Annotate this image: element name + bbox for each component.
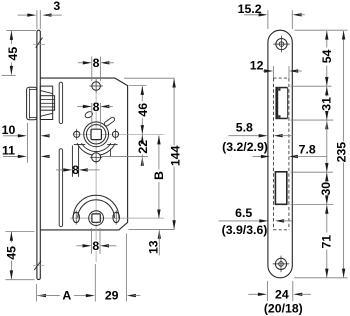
lower follower circle bbox=[89, 211, 104, 226]
svg-text:46: 46 bbox=[136, 103, 150, 117]
vertical centerline through follower axis bbox=[95, 93, 97, 101]
dimension 46 top hole to follower bbox=[129, 85, 147, 87]
upper follower 8mm square spindle hole bbox=[91, 129, 101, 139]
svg-text:71: 71 bbox=[320, 235, 334, 249]
svg-text:(20/18): (20/18) bbox=[264, 302, 303, 316]
section break mark upper on faceplate bbox=[33, 43, 45, 45]
top screw hole of case bbox=[92, 82, 101, 91]
dimension 13 lower follower to case bottom bbox=[158, 230, 161, 239]
lock case outline with chamfered right corners bbox=[40, 78, 127, 230]
faceplate front view rounded strip bbox=[268, 30, 292, 278]
dimension 144 case length bbox=[124, 77, 175, 79]
svg-text:13: 13 bbox=[147, 240, 161, 254]
latch opening with bent lip in plate bbox=[275, 87, 278, 119]
svg-text:(3.9/3.6): (3.9/3.6) bbox=[222, 223, 268, 237]
upper follower rosette circles bbox=[84, 122, 109, 147]
svg-text:A: A bbox=[62, 288, 71, 302]
lower elongated slot in case bbox=[59, 149, 62, 227]
svg-text:10: 10 bbox=[2, 123, 16, 137]
dimension 54 plate top to latch opening bbox=[326, 31, 328, 48]
lower rectangular opening in plate bbox=[275, 172, 286, 205]
top mounting screw hole in plate bbox=[276, 39, 287, 50]
svg-text:29: 29 bbox=[105, 288, 119, 302]
svg-text:235: 235 bbox=[335, 142, 349, 163]
lower screw hole below upper follower bbox=[92, 153, 101, 162]
extension line latch face bbox=[26, 123, 28, 163]
dimension 235 plate length bbox=[343, 31, 345, 142]
svg-text:8: 8 bbox=[93, 100, 100, 114]
dimension 71 lower opening to plate bottom bbox=[326, 205, 328, 232]
hidden lock case dashed outline behind plate bbox=[273, 78, 275, 230]
svg-text:8: 8 bbox=[92, 239, 99, 253]
svg-text:45: 45 bbox=[4, 246, 18, 260]
svg-text:B: B bbox=[152, 171, 166, 180]
latch bolt head protruding left of faceplate bbox=[27, 87, 37, 119]
left fixing screw hole beside follower bbox=[74, 131, 80, 137]
dimension 45 top bbox=[6, 29, 36, 31]
svg-text:(3.2/2.9): (3.2/2.9) bbox=[222, 140, 268, 154]
latch spring box middle section bbox=[40, 96, 54, 111]
spring clip wings below upper follower bbox=[77, 143, 115, 155]
svg-text:22: 22 bbox=[136, 140, 150, 154]
svg-text:15.2: 15.2 bbox=[238, 2, 262, 16]
dimension 30 lower opening height bbox=[326, 173, 328, 181]
arch guard over lower follower bbox=[73, 195, 119, 218]
svg-text:11: 11 bbox=[2, 143, 15, 157]
bottom mounting screw hole in plate bbox=[275, 258, 286, 269]
right fixing screw hole beside follower bbox=[112, 131, 118, 137]
svg-text:45: 45 bbox=[6, 47, 20, 61]
upper elongated slot in case bbox=[59, 82, 62, 123]
small oval slot upper left of follower bbox=[84, 110, 93, 118]
latch bolt body inside case bbox=[40, 86, 52, 119]
svg-text:30: 30 bbox=[319, 182, 333, 196]
left oval hole beside lower follower bbox=[73, 212, 80, 222]
svg-text:144: 144 bbox=[168, 145, 182, 166]
narrow channel under left wing bbox=[71, 146, 73, 177]
extension lines right column bbox=[291, 85, 332, 87]
dimension B distance between followers bbox=[158, 136, 160, 170]
svg-text:8: 8 bbox=[93, 56, 100, 70]
section break mark lower on faceplate bbox=[33, 264, 44, 266]
dimension 31 latch opening height bbox=[326, 87, 328, 97]
horizontal centerline lower follower bbox=[70, 217, 164, 219]
unlabeled segment latch to lower opening bbox=[325, 120, 328, 129]
svg-text:7.8: 7.8 bbox=[299, 142, 316, 156]
svg-text:31: 31 bbox=[320, 97, 334, 111]
svg-text:3: 3 bbox=[53, 0, 60, 13]
svg-text:5.8: 5.8 bbox=[236, 121, 253, 135]
svg-text:54: 54 bbox=[320, 49, 334, 63]
dimension A backset bbox=[35, 284, 37, 302]
faceplate (side view, 3mm thick strip) bbox=[37, 30, 40, 279]
svg-text:12: 12 bbox=[250, 59, 264, 73]
svg-text:6.5: 6.5 bbox=[235, 206, 252, 220]
tilted slot upper right of follower bbox=[104, 116, 116, 126]
dimension 22 follower to screw hole bbox=[102, 156, 148, 158]
horizontal centerline upper follower bbox=[73, 133, 165, 135]
dimension 45 bottom bbox=[5, 231, 34, 233]
right oval hole beside lower follower bbox=[113, 212, 120, 222]
svg-text:8: 8 bbox=[72, 163, 79, 177]
dimension 29 centerline to case back bbox=[125, 234, 127, 302]
svg-text:24: 24 bbox=[275, 288, 289, 302]
lower follower 8mm square hole bbox=[92, 214, 100, 222]
